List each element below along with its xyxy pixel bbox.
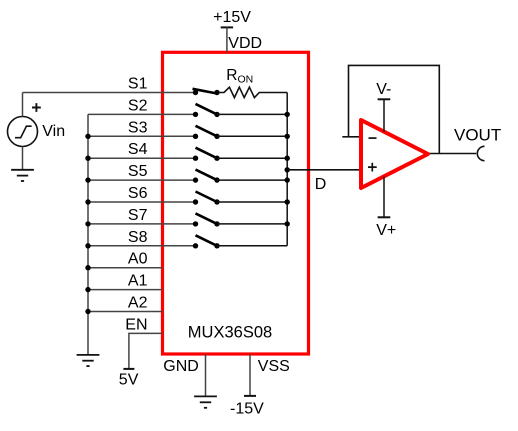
svg-text:VOUT: VOUT xyxy=(454,126,501,145)
wire S2 right to bus xyxy=(217,113,287,115)
switch S1 pole dot left xyxy=(193,90,198,95)
minus sign inverting input xyxy=(369,137,377,139)
svg-text:+15V: +15V xyxy=(213,9,251,26)
wire D output to op-amp xyxy=(287,169,361,171)
svg-text:S6: S6 xyxy=(128,185,148,202)
wire GND xyxy=(205,354,207,396)
svg-text:EN: EN xyxy=(125,316,147,333)
wire left bus xyxy=(87,114,89,355)
switch S6 arm open xyxy=(196,192,218,203)
switch S7 arm open xyxy=(196,213,218,224)
wire S3 right to bus xyxy=(217,135,287,137)
wire VSS xyxy=(249,354,251,396)
junction dot A0 bus xyxy=(85,265,90,270)
svg-text:MUX36S08: MUX36S08 xyxy=(188,324,272,342)
wire Vin top to S1 xyxy=(22,93,24,117)
wire A1 xyxy=(88,289,163,291)
wire S8 right to bus xyxy=(217,245,287,247)
IC body MUX36S08 red box xyxy=(163,52,309,354)
voltage source Vin circle xyxy=(8,117,38,147)
switch S3 pole dot left xyxy=(193,134,198,139)
switch S7 pole dot left xyxy=(193,221,198,226)
resistor R_ON xyxy=(217,87,287,97)
svg-text:A2: A2 xyxy=(128,295,148,312)
junction dot S5 bus xyxy=(85,177,90,182)
ground GND pin xyxy=(194,396,217,407)
power rail bar V- xyxy=(378,98,391,100)
wire VDD supply xyxy=(226,27,228,52)
wire Vin bottom to ground xyxy=(22,147,24,170)
junction dot A1 bus xyxy=(85,287,90,292)
junction dot A2 bus xyxy=(85,309,90,314)
svg-text:VSS: VSS xyxy=(258,358,290,375)
svg-text:VDD: VDD xyxy=(228,35,262,52)
wire A2 xyxy=(88,311,163,313)
switch S5 arm open xyxy=(196,170,218,181)
switch S5 pole dot right xyxy=(214,177,219,182)
svg-text:V-: V- xyxy=(376,81,391,98)
junction dot S7 bus right xyxy=(285,221,290,226)
svg-text:GND: GND xyxy=(163,358,199,375)
junction dot S6 bus xyxy=(85,199,90,204)
wire V+ supply xyxy=(383,177,385,218)
switch S6 pole dot right xyxy=(214,199,219,204)
svg-text:D: D xyxy=(315,176,327,193)
wire S8 xyxy=(88,245,196,247)
op-amp inverting input stub xyxy=(342,136,361,138)
power rail bar V+ xyxy=(378,216,391,218)
plus sign noninverting input xyxy=(368,163,377,172)
junction dot D node xyxy=(285,167,290,172)
switch S2 pole dot left xyxy=(193,112,198,117)
svg-text:S4: S4 xyxy=(128,141,148,158)
svg-text:RON: RON xyxy=(226,67,253,86)
wire A0 xyxy=(88,267,163,269)
switch S7 pole dot right xyxy=(214,221,219,226)
switch S6 pole dot left xyxy=(193,199,198,204)
wire S4 right to bus xyxy=(217,157,287,159)
switch S1 arm closed xyxy=(193,89,218,94)
svg-text:S8: S8 xyxy=(128,229,148,246)
switch S8 arm open xyxy=(196,235,218,246)
switch S4 arm open xyxy=(196,148,218,159)
wire S7 right to bus xyxy=(217,223,287,225)
power rail bar VSS xyxy=(244,395,256,397)
junction dot S4 bus xyxy=(85,156,90,161)
svg-text:A1: A1 xyxy=(128,273,148,290)
ramp symbol inside Vin xyxy=(15,126,32,138)
wire right bus xyxy=(286,93,288,246)
wire S4 xyxy=(88,157,196,159)
wire S5 right to bus xyxy=(217,179,287,181)
switch S5 pole dot left xyxy=(193,177,198,182)
switch S8 pole dot right xyxy=(214,243,219,248)
junction dot S7 bus xyxy=(85,221,90,226)
junction dot S5 bus right xyxy=(285,177,290,182)
svg-text:V+: V+ xyxy=(376,222,396,239)
wire op-amp output xyxy=(428,153,476,155)
ground below Vin xyxy=(11,170,34,181)
wire EN xyxy=(129,333,163,369)
switch S1 pole dot right xyxy=(214,90,219,95)
wire S5 xyxy=(88,179,196,181)
switch S4 pole dot right xyxy=(214,156,219,161)
wire S1 xyxy=(23,92,196,94)
wire S7 xyxy=(88,223,196,225)
junction dot S4 bus right xyxy=(285,156,290,161)
power rail bar 5V xyxy=(123,368,134,370)
junction dot S3 bus right xyxy=(285,134,290,139)
op-amp U1 feedback wire xyxy=(349,65,440,153)
wire S2 xyxy=(88,113,196,115)
svg-text:S1: S1 xyxy=(128,76,148,93)
svg-text:S2: S2 xyxy=(128,97,148,114)
switch S3 arm open xyxy=(196,126,218,137)
plus polarity mark xyxy=(32,103,41,112)
svg-text:S7: S7 xyxy=(128,207,148,224)
power rail bar +15V xyxy=(221,26,233,28)
wire S3 xyxy=(88,135,196,137)
junction dot S3 bus xyxy=(85,134,90,139)
switch S3 pole dot right xyxy=(214,134,219,139)
switch S2 arm open xyxy=(196,104,218,115)
svg-text:-15V: -15V xyxy=(230,401,264,418)
svg-text:5V: 5V xyxy=(119,371,139,388)
svg-text:A0: A0 xyxy=(128,251,148,268)
switch S2 pole dot right xyxy=(214,112,219,117)
ground left bus xyxy=(77,355,100,366)
junction dot S8 bus xyxy=(85,243,90,248)
junction dot S2 bus right xyxy=(285,112,290,117)
switch S8 pole dot left xyxy=(193,243,198,248)
svg-text:S5: S5 xyxy=(128,163,148,180)
junction dot S6 bus right xyxy=(285,199,290,204)
wire S6 xyxy=(88,201,196,203)
wire S6 right to bus xyxy=(217,201,287,203)
terminal VOUT arc xyxy=(477,146,484,160)
svg-text:S3: S3 xyxy=(128,119,148,136)
svg-text:Vin: Vin xyxy=(42,123,65,140)
op-amp U1 triangle xyxy=(361,120,428,188)
wire V- supply xyxy=(383,99,385,132)
switch S4 pole dot left xyxy=(193,156,198,161)
